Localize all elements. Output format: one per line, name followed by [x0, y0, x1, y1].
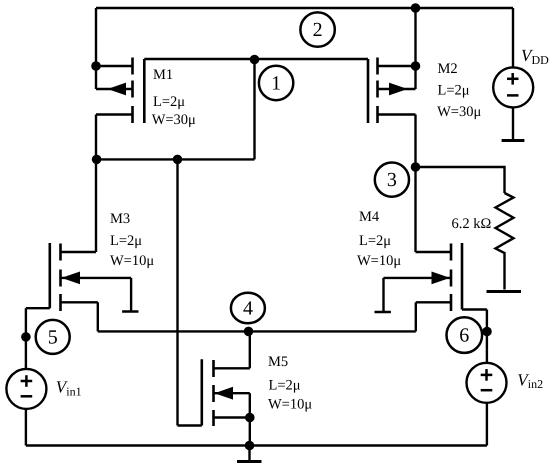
- wire M3 bulk to ground: [130, 278, 132, 312]
- M5 channel dashes: [212, 360, 215, 377]
- wire M3 gate lead: [26, 307, 50, 309]
- wire node 4 horizontal: [98, 330, 416, 332]
- svg-text:DD: DD: [532, 53, 550, 67]
- M1 gate plate: [143, 59, 146, 123]
- wire M5 gate vertical: [176, 159, 178, 425]
- junction dot node 4: [244, 327, 254, 337]
- wire VDD to ground: [512, 107, 514, 140]
- svg-text:L=2μ: L=2μ: [110, 233, 142, 249]
- M3 source stub: [61, 301, 98, 303]
- svg-text:W=30μ: W=30μ: [437, 104, 481, 120]
- M5 bulk stub: [214, 392, 250, 394]
- junction dot node 1 wire left: [92, 155, 102, 165]
- svg-text:L=2μ: L=2μ: [438, 83, 470, 99]
- svg-text:6.2 kΩ: 6.2 kΩ: [452, 216, 492, 232]
- svg-text:M5: M5: [268, 354, 288, 370]
- M4 source stub: [416, 301, 451, 303]
- wire Vin1 to bottom rail: [25, 409, 27, 446]
- junction dot node 3: [411, 162, 421, 172]
- junction dot node 5: [21, 332, 31, 342]
- wire M4 bulk to ground: [382, 278, 384, 312]
- M4 channel dashes: [450, 244, 453, 261]
- wire top rail node 2: [96, 7, 513, 9]
- M1 bulk stub: [96, 88, 133, 90]
- Vin1 minus sign: [21, 395, 33, 398]
- wire node 5 vertical: [25, 308, 27, 369]
- wire M1 source-bulk vertical: [95, 8, 97, 89]
- node 1 label circle: [259, 66, 293, 100]
- Vin2 minus sign: [481, 389, 493, 392]
- VDD minus sign: [507, 94, 519, 97]
- VDD plus sign: [507, 78, 519, 81]
- junction dot M1 source: [91, 61, 101, 71]
- wire M3 source down: [97, 302, 99, 331]
- M5 drain vertical: [249, 331, 251, 368]
- M2 bulk stub: [378, 88, 416, 90]
- M2 gate plate: [367, 59, 370, 123]
- ground stem under M5: [248, 446, 250, 462]
- transistor M3: [50, 243, 131, 311]
- M5 gate plate: [201, 359, 204, 425]
- Vin2 plus sign: [481, 374, 493, 377]
- node 5 label circle: [36, 320, 70, 354]
- transistor M1: [96, 58, 144, 124]
- node 6 label circle: [447, 317, 483, 353]
- node 3 label circle: [375, 163, 409, 197]
- junction dot bottom rail: [245, 441, 255, 451]
- svg-text:6: 6: [459, 325, 469, 347]
- resistor R 6.2k: [496, 193, 514, 256]
- svg-text:L=2μ: L=2μ: [269, 378, 301, 394]
- svg-text:W=10μ: W=10μ: [110, 253, 154, 269]
- ground bar under M5: [237, 460, 262, 463]
- wire node 1 horizontal: [97, 158, 255, 160]
- M5 bulk to source vertical: [249, 393, 251, 417]
- M4 gate plate: [461, 243, 464, 310]
- ground under VDD: [502, 139, 525, 142]
- Vin1 plus sign: [21, 380, 33, 383]
- M1 drain stub: [96, 113, 133, 115]
- Vin1 circle: [6, 369, 46, 409]
- VDD circle: [493, 67, 533, 107]
- wire M5 source to bottom rail: [249, 418, 251, 446]
- M4 bulk arrow: [432, 272, 451, 285]
- ground under resistor: [487, 290, 522, 293]
- voltage source Vin1: [6, 369, 46, 409]
- ground M4 bulk: [375, 311, 391, 314]
- junction dot M2 source: [411, 61, 421, 71]
- svg-text:M4: M4: [359, 209, 380, 225]
- M3 gate plate: [48, 243, 51, 308]
- wire Vin2 to bottom rail: [486, 403, 488, 446]
- M1 bulk arrow: [108, 83, 127, 96]
- wire M2 source vertical: [414, 8, 416, 89]
- svg-text:M2: M2: [438, 61, 458, 77]
- M1 channel dashes: [131, 58, 134, 75]
- svg-text:in1: in1: [66, 385, 81, 399]
- M5 drain stub: [214, 367, 250, 369]
- svg-text:1: 1: [271, 73, 281, 95]
- wire gate tap vertical: [253, 59, 255, 159]
- wire M4 gate lead: [462, 308, 487, 310]
- ground M3 bulk: [122, 310, 138, 313]
- wire M2 drain vertical to M4 drain: [414, 115, 416, 253]
- voltage source VDD: [493, 67, 533, 107]
- svg-text:in2: in2: [528, 377, 543, 391]
- junction dot M5 gate tap: [173, 155, 183, 165]
- M5 gate lead: [178, 424, 202, 426]
- node 4 label circle: [231, 293, 265, 324]
- wire resistor to ground: [503, 256, 505, 290]
- svg-text:5: 5: [48, 327, 58, 349]
- junction dot M5 source: [245, 413, 255, 423]
- svg-text:W=10μ: W=10μ: [357, 253, 401, 269]
- svg-text:W=10μ: W=10μ: [268, 397, 312, 413]
- M5 source stub: [214, 416, 250, 418]
- M1 top stub (source): [96, 65, 133, 67]
- transistor M2: [368, 58, 416, 124]
- svg-text:M1: M1: [153, 67, 173, 83]
- wire M1 drain vertical to M3 drain: [95, 115, 97, 253]
- svg-text:L=2μ: L=2μ: [359, 233, 391, 249]
- M4 bulk stub: [384, 277, 452, 279]
- svg-text:M3: M3: [110, 211, 130, 227]
- M3 bulk arrow: [62, 272, 81, 285]
- M2 drain stub: [378, 113, 416, 115]
- wire M4 source down: [415, 302, 417, 331]
- svg-text:L=2μ: L=2μ: [153, 94, 185, 110]
- resistor feed wire: [416, 167, 505, 193]
- svg-text:2: 2: [313, 19, 323, 41]
- M3 channel dashes: [59, 244, 62, 261]
- Vin2 circle: [467, 363, 507, 403]
- wire gate line M1-M2: [144, 58, 368, 60]
- M2 top stub (source): [378, 65, 416, 67]
- wire VDD drop: [512, 8, 514, 68]
- M4 drain stub: [416, 251, 452, 253]
- svg-text:3: 3: [387, 169, 397, 191]
- svg-text:4: 4: [243, 298, 253, 320]
- wire bottom rail: [26, 444, 487, 446]
- wire node 6 vertical: [486, 310, 488, 364]
- svg-text:W=30μ: W=30μ: [152, 112, 196, 128]
- M5 bulk arrow: [215, 387, 234, 400]
- M3 bulk stub: [61, 277, 132, 279]
- M2 bulk arrow: [389, 83, 408, 96]
- node 2 junction dot: [411, 3, 421, 13]
- M2 channel dashes: [376, 58, 379, 75]
- node 2 label circle: [300, 12, 334, 46]
- M3 drain stub: [61, 251, 97, 253]
- voltage source Vin2: [467, 363, 507, 403]
- junction dot node 6: [482, 327, 492, 337]
- transistor M5: [178, 331, 255, 426]
- transistor M4: [384, 243, 463, 311]
- junction dot gate line: [250, 55, 260, 65]
